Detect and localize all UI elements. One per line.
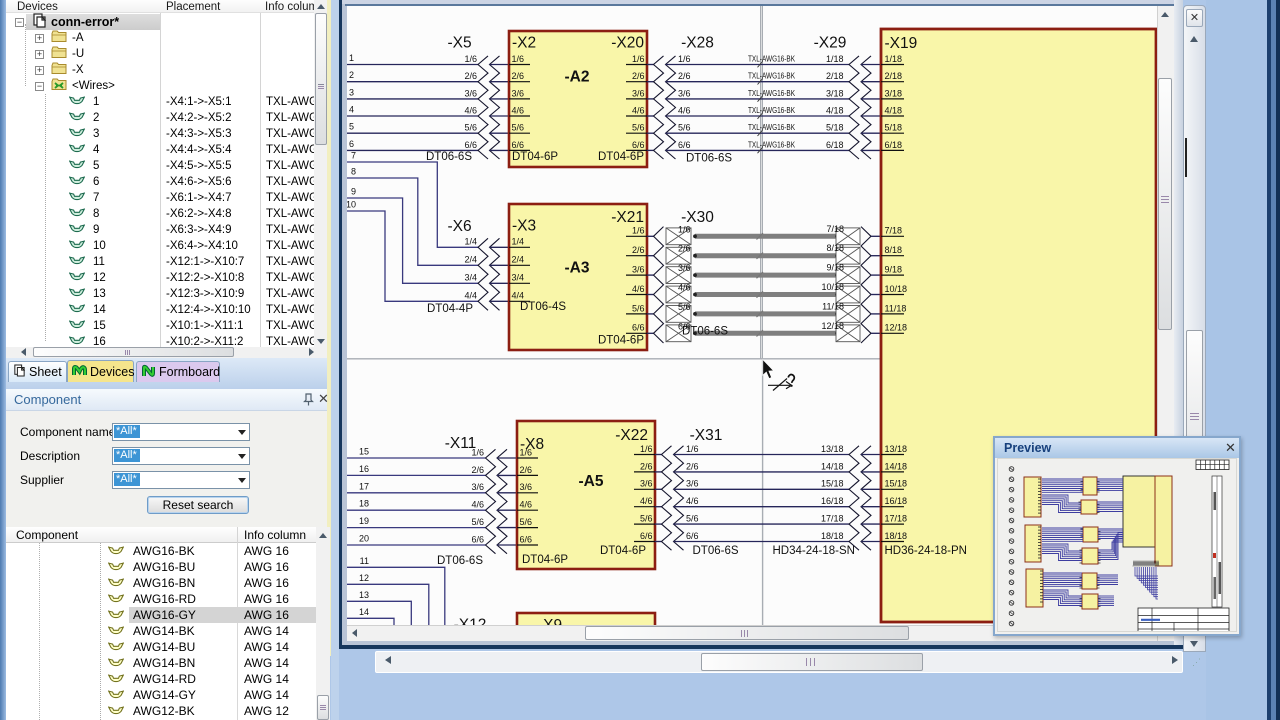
svg-text:1/6: 1/6 — [678, 224, 691, 234]
svg-text:-X2: -X2 — [512, 35, 536, 52]
svg-text:6: 6 — [349, 139, 354, 149]
svg-text:DT06-4S: DT06-4S — [520, 301, 566, 313]
svg-text:-A3: -A3 — [565, 260, 590, 277]
svg-text:10: 10 — [347, 200, 356, 210]
svg-text:DT06-6S: DT06-6S — [693, 545, 739, 557]
svg-text:2/6: 2/6 — [512, 71, 525, 81]
tab bar — [6, 358, 327, 393]
connector -X5 — [426, 35, 509, 164]
svg-text:DT04-6P: DT04-6P — [522, 554, 568, 566]
svg-text:4/4: 4/4 — [464, 291, 477, 301]
svg-text:-X21: -X21 — [611, 209, 644, 226]
svg-text:-X29: -X29 — [814, 35, 847, 52]
svg-text:3/4: 3/4 — [464, 273, 477, 283]
svg-text:15: 15 — [359, 447, 369, 457]
svg-text:13/18: 13/18 — [885, 444, 908, 454]
preview sheet pin circles — [1009, 467, 1014, 626]
svg-text:3/6: 3/6 — [464, 88, 477, 98]
window frame — [342, 0, 1184, 649]
component panel — [6, 389, 327, 720]
svg-text:5/6: 5/6 — [464, 123, 477, 133]
svg-text:DT06-6S: DT06-6S — [437, 555, 483, 567]
svg-text:-A5: -A5 — [579, 473, 604, 490]
connector -X31 — [655, 427, 739, 557]
svg-text:6/6: 6/6 — [520, 534, 533, 544]
svg-text:3/6: 3/6 — [686, 479, 699, 489]
svg-text:1/4: 1/4 — [464, 237, 477, 247]
svg-text:9/18: 9/18 — [826, 263, 844, 273]
preview revision strip — [1212, 476, 1222, 607]
wires 7-10 routed from left edge to -X6 — [346, 151, 478, 302]
preview large block B redraw — [1155, 476, 1172, 566]
preview left connector blocks — [1024, 477, 1043, 607]
svg-text:6/18: 6/18 — [885, 140, 903, 150]
svg-text:-X9: -X9 — [538, 617, 562, 625]
tree horizontal scrollbar — [6, 347, 328, 358]
far right window borders — [1206, 0, 1280, 720]
connector -X21 (right side of -A3) — [598, 209, 647, 347]
wires -X31 to -X19 with HD34-24-18-SN label — [674, 455, 855, 558]
svg-text:2/6: 2/6 — [678, 71, 691, 81]
svg-text:5/6: 5/6 — [640, 514, 653, 524]
device block -X9 (clipped at bottom) — [517, 613, 655, 634]
component list scrollbar — [316, 527, 330, 720]
svg-text:DT04-6P: DT04-6P — [512, 151, 558, 163]
svg-text:16/18: 16/18 — [885, 496, 908, 506]
device block -A3 — [509, 204, 647, 350]
svg-text:5: 5 — [349, 122, 354, 132]
svg-text:14: 14 — [359, 607, 369, 617]
svg-text:8: 8 — [351, 167, 356, 177]
devices tree panel — [6, 0, 339, 358]
preview wire comb — [1133, 561, 1159, 567]
svg-text:1/6: 1/6 — [464, 54, 477, 64]
svg-text:4/6: 4/6 — [678, 283, 691, 293]
wires 15-20 from left edge to -X11 — [347, 447, 486, 546]
svg-text:16: 16 — [359, 464, 369, 474]
svg-text:13/18: 13/18 — [821, 444, 844, 454]
svg-text:DT04-6P: DT04-6P — [598, 335, 644, 347]
svg-text:2: 2 — [349, 70, 354, 80]
pins 13/18-18/18 of -X19 — [881, 444, 907, 542]
svg-text:1/4: 1/4 — [512, 237, 525, 247]
svg-text:11/18: 11/18 — [885, 303, 907, 313]
connector -X3 (left side of -A3) — [509, 218, 566, 314]
svg-text:3/6: 3/6 — [632, 88, 645, 98]
svg-text:DT04-6P: DT04-6P — [598, 151, 644, 163]
svg-text:-X12: -X12 — [454, 617, 487, 626]
connector -X28 — [647, 35, 732, 165]
svg-text:-X22: -X22 — [615, 427, 648, 444]
svg-text:6/6: 6/6 — [678, 140, 691, 150]
svg-text:2/6: 2/6 — [632, 71, 645, 81]
svg-text:4: 4 — [349, 105, 354, 115]
svg-text:3/6: 3/6 — [512, 88, 525, 98]
svg-text:7/18: 7/18 — [826, 224, 844, 234]
svg-text:4/6: 4/6 — [471, 500, 484, 510]
svg-text:-X20: -X20 — [611, 35, 644, 52]
svg-text:2/6: 2/6 — [520, 465, 533, 475]
svg-text:17/18: 17/18 — [821, 514, 844, 524]
svg-text:TXL-AWG16-BK: TXL-AWG16-BK — [748, 106, 795, 115]
svg-text:-X6: -X6 — [447, 218, 471, 235]
svg-text:DT04-4P: DT04-4P — [427, 303, 473, 315]
svg-text:2/18: 2/18 — [826, 71, 844, 81]
svg-text:5/6: 5/6 — [471, 517, 484, 527]
svg-text:6/6: 6/6 — [464, 140, 477, 150]
preview large device blocks — [1123, 476, 1172, 566]
svg-text:3/6: 3/6 — [678, 88, 691, 98]
svg-text:3/18: 3/18 — [885, 88, 903, 98]
svg-text:DT04-6P: DT04-6P — [600, 545, 646, 557]
svg-text:7/18: 7/18 — [885, 226, 903, 236]
svg-text:DT06-6S: DT06-6S — [426, 151, 472, 163]
svg-text:4/6: 4/6 — [520, 500, 533, 510]
svg-text:3/6: 3/6 — [520, 482, 533, 492]
svg-text:2/18: 2/18 — [885, 71, 903, 81]
svg-text:TXL-AWG16-BK: TXL-AWG16-BK — [748, 55, 795, 64]
connector -X6 — [427, 218, 509, 315]
svg-text:6/6: 6/6 — [686, 531, 699, 541]
svg-text:1/6: 1/6 — [640, 444, 653, 454]
svg-text:5/6: 5/6 — [520, 517, 533, 527]
svg-text:12: 12 — [359, 573, 369, 583]
svg-text:4/18: 4/18 — [885, 105, 903, 115]
svg-text:11: 11 — [360, 556, 369, 566]
svg-text:2/6: 2/6 — [632, 245, 645, 255]
canvas h scrollbar — [347, 625, 1157, 641]
svg-text:14/18: 14/18 — [885, 461, 908, 471]
connector -X8 (left side of -A5) — [517, 436, 568, 566]
svg-text:2/6: 2/6 — [464, 71, 477, 81]
svg-text:2/6: 2/6 — [686, 461, 699, 471]
wires -X28 to -X29 with TXL-AWG16-BK labels — [666, 55, 850, 154]
window bottom navy border — [339, 645, 1183, 649]
svg-text:HD36-24-18-PN: HD36-24-18-PN — [885, 545, 967, 557]
connector -X11 — [437, 435, 517, 567]
svg-text:4/6: 4/6 — [640, 496, 653, 506]
svg-text:6/6: 6/6 — [640, 531, 653, 541]
svg-text:TXL-AWG16-BK: TXL-AWG16-BK — [748, 72, 795, 81]
svg-text:12/18: 12/18 — [821, 321, 844, 331]
svg-text:3/18: 3/18 — [826, 88, 844, 98]
svg-text:9/18: 9/18 — [885, 265, 903, 275]
svg-text:DT06-6S: DT06-6S — [686, 153, 732, 165]
svg-text:4/6: 4/6 — [512, 105, 525, 115]
svg-text:TXL-AWG16-BK: TXL-AWG16-BK — [748, 89, 795, 98]
svg-text:2/4: 2/4 — [512, 255, 525, 265]
svg-text:4/18: 4/18 — [826, 105, 844, 115]
svg-text:1/6: 1/6 — [678, 54, 691, 64]
selected (highlighted) wires -X30:1..6 to -X19:7..12 — [666, 227, 881, 343]
svg-text:5/6: 5/6 — [632, 303, 645, 313]
svg-text:5/6: 5/6 — [678, 123, 691, 133]
svg-text:-X5: -X5 — [447, 35, 471, 52]
svg-text:5/6: 5/6 — [686, 514, 699, 524]
svg-text:15/18: 15/18 — [821, 479, 844, 489]
right docked scrollbar panel — [1183, 5, 1206, 652]
svg-text:5/6: 5/6 — [512, 123, 525, 133]
svg-text:15/18: 15/18 — [885, 479, 908, 489]
canvas v scrollbar — [1157, 6, 1174, 641]
left application border — [0, 0, 6, 720]
pale yellow splitter strip — [327, 0, 331, 656]
svg-text:6/6: 6/6 — [471, 534, 484, 544]
svg-text:3/6: 3/6 — [471, 482, 484, 492]
svg-text:HD34-24-18-SN: HD34-24-18-SN — [773, 545, 855, 557]
preview middle connector blocks — [1079, 477, 1101, 609]
svg-text:3: 3 — [349, 87, 354, 97]
svg-text:2/6: 2/6 — [640, 461, 653, 471]
svg-text:18/18: 18/18 — [821, 531, 844, 541]
svg-text:6/6: 6/6 — [632, 323, 645, 333]
svg-text:1/18: 1/18 — [826, 54, 844, 64]
svg-text:18: 18 — [359, 499, 369, 509]
connector -X22 (right side of -A5) — [600, 427, 655, 557]
svg-text:4/6: 4/6 — [632, 105, 645, 115]
mouse cursor with connect-wire tool glyph — [763, 360, 794, 391]
svg-text:5/18: 5/18 — [826, 123, 844, 133]
svg-text:-X19: -X19 — [885, 35, 918, 52]
svg-text:3/4: 3/4 — [512, 273, 525, 283]
window left navy border — [339, 0, 342, 649]
svg-text:6/18: 6/18 — [826, 140, 844, 150]
connector -X29 — [814, 35, 881, 160]
wires 1-6 from left edge to connector -X5 — [347, 53, 478, 150]
outer horizontal scrollbar — [375, 651, 1183, 673]
window right strip — [1174, 0, 1183, 649]
svg-text:10/18: 10/18 — [885, 284, 908, 294]
svg-text:TXL-AWG16-BK: TXL-AWG16-BK — [748, 140, 795, 149]
svg-text:14/18: 14/18 — [821, 461, 844, 471]
device block -A2 — [509, 31, 647, 167]
svg-text:11/18: 11/18 — [822, 301, 844, 311]
device block -A5 — [517, 421, 655, 569]
svg-text:5/6: 5/6 — [678, 302, 691, 312]
preview top-right reference grid — [1196, 460, 1229, 470]
connector -X30 — [647, 209, 844, 343]
svg-text:17: 17 — [359, 481, 369, 491]
svg-text:6/6: 6/6 — [632, 140, 645, 150]
svg-text:5/6: 5/6 — [632, 123, 645, 133]
svg-text:13: 13 — [359, 590, 369, 600]
svg-text:DT06-6S: DT06-6S — [682, 326, 728, 338]
svg-text:1/6: 1/6 — [471, 447, 484, 457]
svg-text:20: 20 — [359, 534, 369, 544]
svg-text:4/6: 4/6 — [678, 105, 691, 115]
svg-text:1/6: 1/6 — [632, 54, 645, 64]
svg-text:7: 7 — [351, 151, 356, 161]
connector -X2 (left side of -A2) — [509, 35, 558, 164]
svg-text:4/6: 4/6 — [464, 105, 477, 115]
svg-text:1/6: 1/6 — [686, 444, 699, 454]
svg-text:18/18: 18/18 — [885, 531, 908, 541]
svg-text:-X28: -X28 — [681, 35, 714, 52]
canvas — [347, 6, 1157, 625]
svg-text:16/18: 16/18 — [821, 496, 844, 506]
tree vertical scrollbar — [314, 0, 328, 347]
svg-text:8/18: 8/18 — [885, 245, 903, 255]
svg-text:4/6: 4/6 — [632, 284, 645, 294]
preview wire bundles — [1042, 479, 1158, 606]
sheet boundary vertical line — [761, 6, 763, 625]
pins 7/18-12/18 of -X19 — [881, 226, 907, 334]
svg-text:3/6: 3/6 — [632, 265, 645, 275]
svg-text:12/18: 12/18 — [885, 323, 908, 333]
svg-text:4/6: 4/6 — [686, 496, 699, 506]
svg-text:2/6: 2/6 — [471, 465, 484, 475]
svg-text:-X31: -X31 — [690, 427, 723, 444]
preview window — [993, 436, 1241, 636]
svg-text:4/4: 4/4 — [512, 291, 525, 301]
connector -X20 (right side of -A2) — [598, 35, 647, 164]
connector pins 13/18-18/18 into -X19 — [821, 444, 881, 550]
svg-text:8/18: 8/18 — [826, 243, 844, 253]
svg-text:19: 19 — [359, 516, 369, 526]
svg-text:3/6: 3/6 — [678, 263, 691, 273]
device block -X19 — [881, 29, 1156, 622]
svg-text:1: 1 — [349, 53, 354, 63]
svg-text:6/6: 6/6 — [512, 140, 525, 150]
svg-text:-X3: -X3 — [512, 218, 536, 235]
sheet boundary horizontal line — [347, 358, 881, 360]
svg-text:1/6: 1/6 — [632, 226, 645, 236]
svg-text:17/18: 17/18 — [885, 514, 908, 524]
svg-text:1/18: 1/18 — [885, 54, 903, 64]
svg-text:2/6: 2/6 — [678, 244, 691, 254]
svg-text:3/6: 3/6 — [640, 479, 653, 489]
svg-text:-A2: -A2 — [565, 69, 590, 86]
svg-text:5/18: 5/18 — [885, 123, 903, 133]
svg-text:1/6: 1/6 — [512, 54, 525, 64]
svg-text:TXL-AWG16-BK: TXL-AWG16-BK — [748, 123, 795, 132]
svg-text:1/6: 1/6 — [520, 447, 533, 457]
svg-text:2/4: 2/4 — [464, 255, 477, 265]
wires 11-14 routed down to -X12 — [347, 556, 445, 625]
svg-text:9: 9 — [351, 187, 356, 197]
svg-text:10/18: 10/18 — [821, 282, 844, 292]
pins 1/18-6/18 of -X19 — [881, 54, 904, 150]
preview title block — [1138, 608, 1229, 636]
